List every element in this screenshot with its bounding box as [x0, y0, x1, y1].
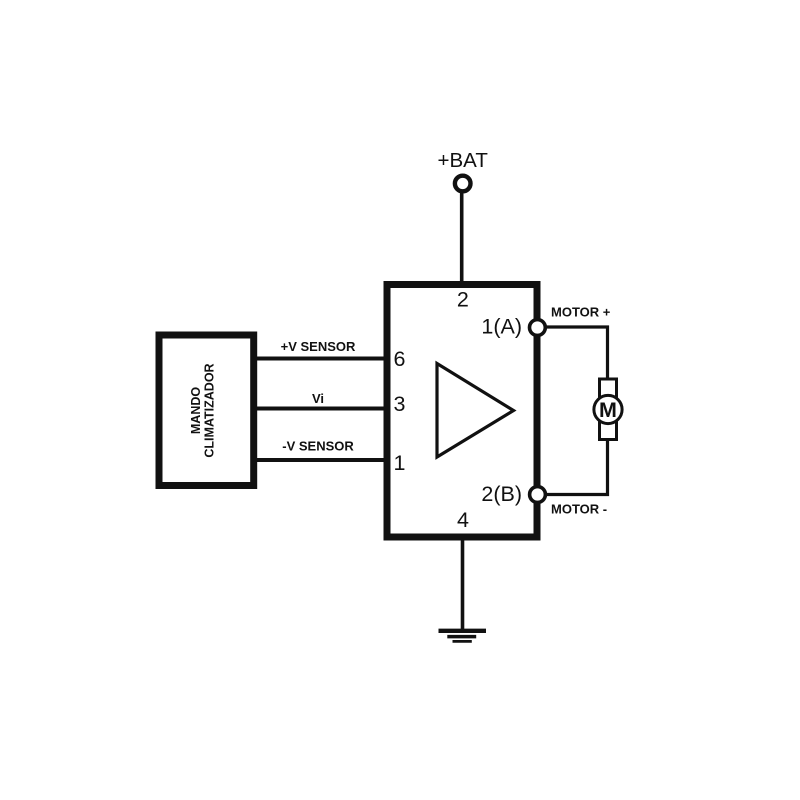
node +BAT terminal — [455, 176, 471, 192]
node 1(A) — [530, 320, 546, 336]
op-amp module U1 — [387, 285, 537, 538]
svg-text:3: 3 — [394, 392, 406, 416]
svg-text:+BAT: +BAT — [438, 149, 489, 172]
svg-text:1(A): 1(A) — [481, 315, 522, 339]
motor M1 circle — [594, 395, 622, 423]
left block MANDO CLIMATIZADOR — [159, 335, 254, 486]
wire Vi — [253, 407, 388, 411]
wire +BAT to pin 2 — [460, 192, 464, 285]
ground — [439, 631, 487, 642]
wire motor + — [545, 327, 608, 379]
svg-text:1: 1 — [394, 451, 406, 475]
svg-text:CLIMATIZADOR: CLIMATIZADOR — [202, 363, 216, 457]
wire pin 4 to ground — [461, 536, 465, 630]
svg-text:Vi: Vi — [312, 391, 324, 406]
wire -V SENSOR — [253, 458, 388, 462]
svg-text:6: 6 — [394, 347, 406, 371]
svg-text:-V SENSOR: -V SENSOR — [282, 439, 354, 454]
svg-text:+V SENSOR: +V SENSOR — [281, 339, 356, 354]
motor M1 body — [600, 379, 617, 440]
svg-text:4: 4 — [457, 508, 469, 532]
wire motor - — [545, 440, 608, 495]
svg-text:MOTOR -: MOTOR - — [551, 502, 607, 517]
node 2(B) — [530, 487, 546, 503]
wire +V SENSOR — [253, 357, 388, 361]
svg-text:2(B): 2(B) — [481, 482, 522, 506]
svg-text:MANDO: MANDO — [189, 387, 203, 434]
amplifier triangle — [437, 364, 514, 458]
svg-text:M: M — [599, 398, 617, 422]
svg-text:MOTOR +: MOTOR + — [551, 305, 611, 320]
svg-text:2: 2 — [457, 288, 469, 312]
